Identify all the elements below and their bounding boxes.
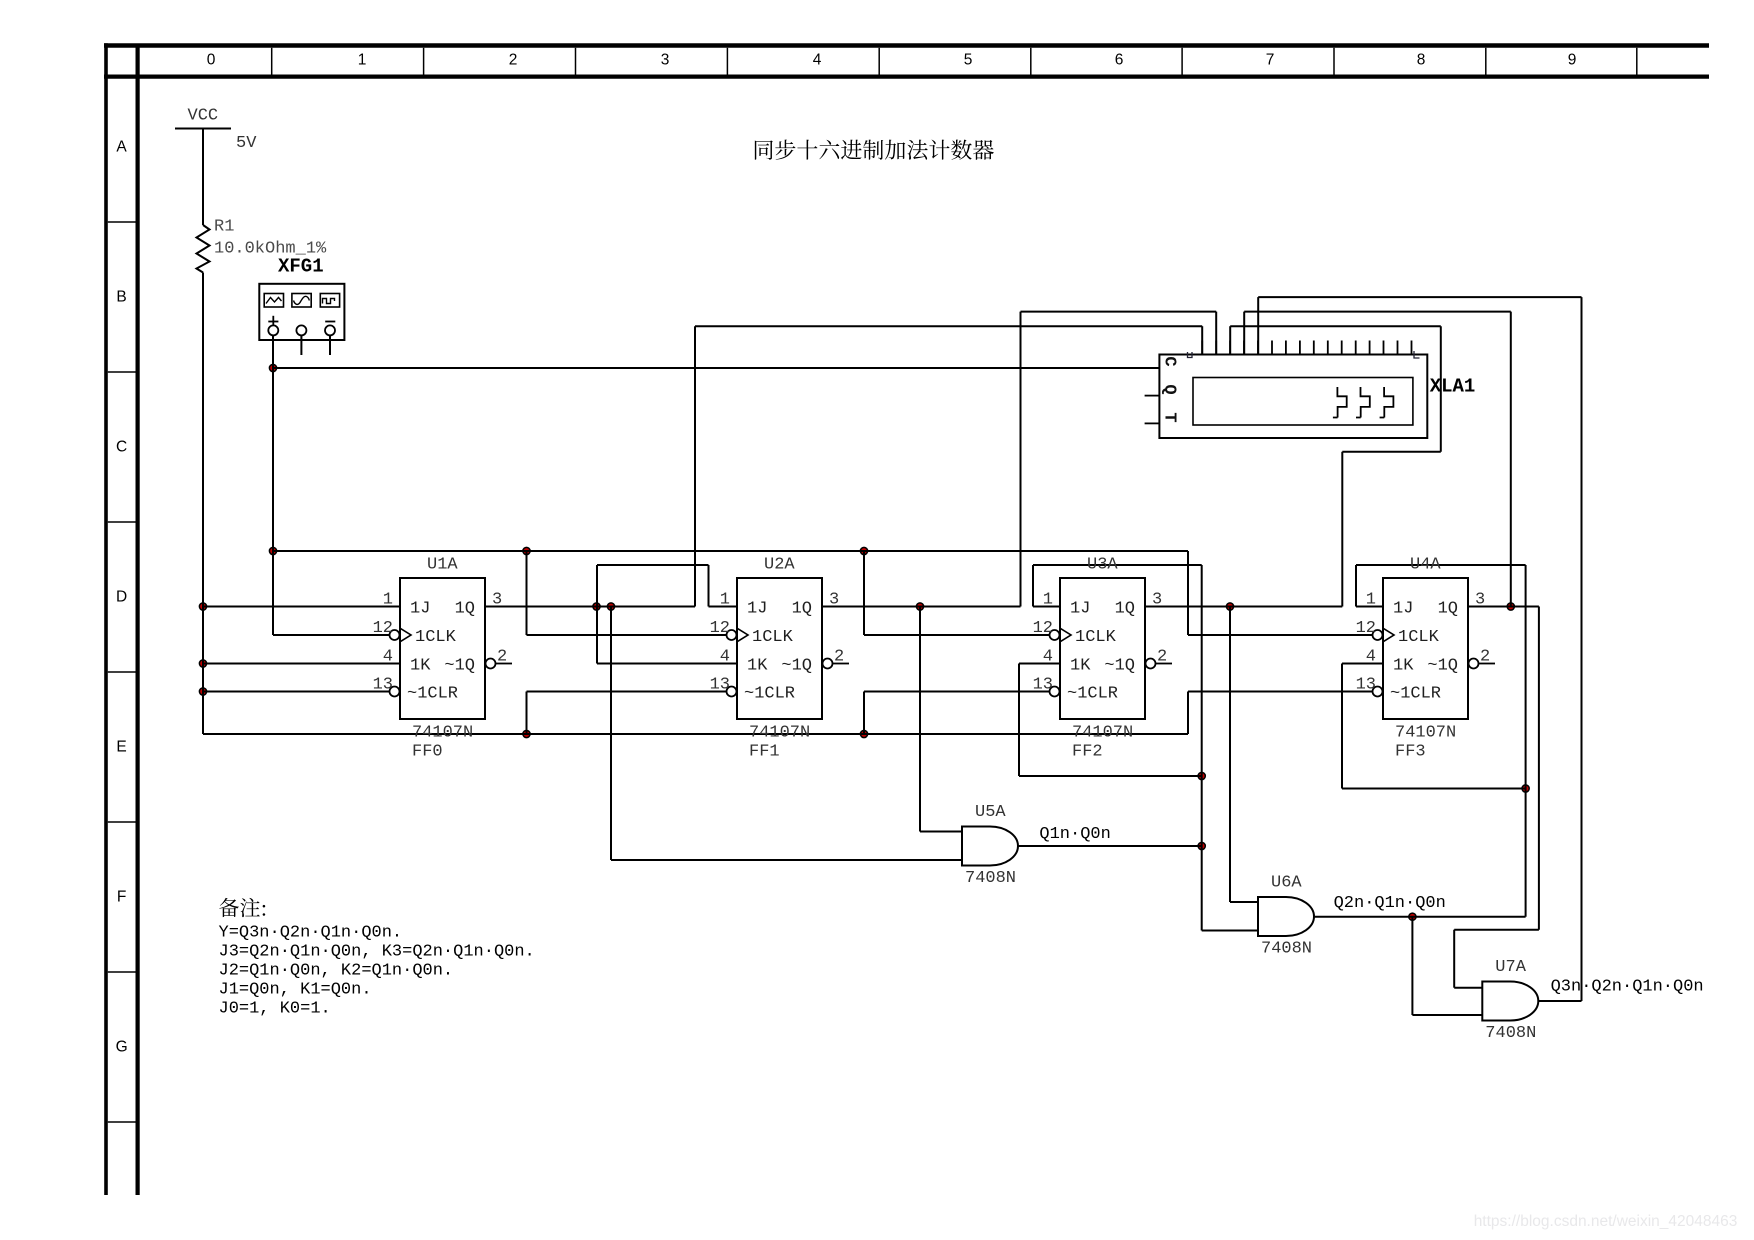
svg-text:7408N: 7408N (965, 869, 1016, 888)
svg-text:J3=Q2n·Q1n·Q0n, K3=Q2n·Q1n·Q0n: J3=Q2n·Q1n·Q0n, K3=Q2n·Q1n·Q0n. (219, 943, 535, 962)
svg-text:4: 4 (383, 648, 393, 667)
svg-text:U7A: U7A (1495, 958, 1526, 977)
svg-text:R1: R1 (214, 218, 234, 237)
svg-text:U1A: U1A (427, 556, 458, 575)
svg-text:U3A: U3A (1087, 556, 1118, 575)
svg-text:VCC: VCC (188, 107, 219, 126)
svg-text:C: C (1160, 356, 1179, 366)
svg-text:1J: 1J (747, 599, 767, 618)
svg-text:1Q: 1Q (455, 599, 475, 618)
svg-text:FF1: FF1 (749, 743, 780, 762)
svg-text:XFG1: XFG1 (278, 256, 324, 278)
svg-text:1: 1 (383, 591, 393, 610)
svg-text:FF3: FF3 (1395, 743, 1426, 762)
svg-text:1: 1 (1366, 591, 1376, 610)
svg-text:1Q: 1Q (792, 599, 812, 618)
svg-text:FF0: FF0 (412, 743, 443, 762)
svg-text:9: 9 (1568, 51, 1577, 68)
svg-text:T: T (1160, 412, 1179, 422)
svg-text:U6A: U6A (1271, 874, 1302, 893)
svg-text:Q2n·Q1n·Q0n: Q2n·Q1n·Q0n (1334, 894, 1446, 913)
svg-text:2: 2 (1157, 648, 1167, 667)
svg-text:2: 2 (497, 648, 507, 667)
svg-text:1K: 1K (747, 656, 768, 675)
svg-text:2: 2 (834, 648, 844, 667)
svg-text:U4A: U4A (1410, 556, 1441, 575)
svg-text:~1CLR: ~1CLR (1390, 684, 1441, 703)
svg-text:4: 4 (720, 648, 730, 667)
svg-text:5V: 5V (236, 134, 257, 153)
svg-text:1Q: 1Q (1115, 599, 1135, 618)
svg-text:J2=Q1n·Q0n, K2=Q1n·Q0n.: J2=Q1n·Q0n, K2=Q1n·Q0n. (219, 962, 454, 981)
svg-text:A: A (116, 139, 127, 156)
svg-text:J1=Q0n, K1=Q0n.: J1=Q0n, K1=Q0n. (219, 981, 372, 1000)
svg-text:13: 13 (1033, 676, 1053, 695)
svg-text:5: 5 (964, 51, 973, 68)
svg-text:G: G (116, 1039, 128, 1056)
svg-text:~1Q: ~1Q (1427, 656, 1458, 675)
svg-text:F: F (117, 889, 126, 906)
svg-text:2: 2 (509, 51, 518, 68)
svg-text:1Q: 1Q (1438, 599, 1458, 618)
svg-text:B: B (116, 289, 126, 306)
svg-text:1K: 1K (410, 656, 431, 675)
svg-text:4: 4 (1043, 648, 1053, 667)
svg-text:3: 3 (829, 591, 839, 610)
svg-text:C: C (116, 439, 127, 456)
svg-text:1CLK: 1CLK (1398, 628, 1440, 647)
svg-text:~1Q: ~1Q (444, 656, 475, 675)
svg-text:1CLK: 1CLK (415, 628, 457, 647)
svg-text:3: 3 (492, 591, 502, 610)
svg-text:Q: Q (1160, 384, 1179, 394)
svg-text:1K: 1K (1393, 656, 1414, 675)
svg-text:1J: 1J (1393, 599, 1413, 618)
svg-text:~1CLR: ~1CLR (744, 684, 795, 703)
svg-text:1: 1 (1043, 591, 1053, 610)
svg-text:0: 0 (207, 51, 216, 68)
svg-text:6: 6 (1115, 51, 1124, 68)
svg-text:74107N: 74107N (412, 724, 473, 743)
svg-text:Q3n·Q2n·Q1n·Q0n: Q3n·Q2n·Q1n·Q0n (1551, 978, 1704, 997)
svg-text:~1CLR: ~1CLR (407, 684, 458, 703)
svg-text:2: 2 (1480, 648, 1490, 667)
svg-text:3: 3 (661, 51, 670, 68)
svg-text:1: 1 (720, 591, 730, 610)
svg-text:3: 3 (1152, 591, 1162, 610)
svg-text:~1Q: ~1Q (1104, 656, 1135, 675)
svg-text:7: 7 (1266, 51, 1275, 68)
svg-text:Q1n·Q0n: Q1n·Q0n (1039, 825, 1110, 844)
svg-text:4: 4 (1366, 648, 1376, 667)
svg-text:XLA1: XLA1 (1430, 376, 1476, 398)
svg-text:74107N: 74107N (749, 724, 810, 743)
svg-text:U2A: U2A (764, 556, 795, 575)
svg-text:13: 13 (710, 676, 730, 695)
svg-text:74107N: 74107N (1395, 724, 1456, 743)
svg-text:~1Q: ~1Q (781, 656, 812, 675)
svg-text:1: 1 (358, 51, 367, 68)
svg-text:7408N: 7408N (1261, 940, 1312, 959)
svg-text:~1CLR: ~1CLR (1067, 684, 1118, 703)
svg-text:12: 12 (1033, 619, 1053, 638)
svg-text:3: 3 (1475, 591, 1485, 610)
svg-text:12: 12 (710, 619, 730, 638)
svg-text:74107N: 74107N (1072, 724, 1133, 743)
svg-text:FF2: FF2 (1072, 743, 1103, 762)
svg-text:https://blog.csdn.net/weixin_4: https://blog.csdn.net/weixin_42048463 (1474, 1213, 1738, 1230)
svg-text:13: 13 (1356, 676, 1376, 695)
svg-text:E: E (116, 739, 126, 756)
svg-text:1K: 1K (1070, 656, 1091, 675)
svg-text:1J: 1J (1070, 599, 1090, 618)
svg-text:1CLK: 1CLK (752, 628, 794, 647)
svg-text:8: 8 (1417, 51, 1426, 68)
svg-text:1J: 1J (410, 599, 430, 618)
svg-text:Y=Q3n·Q2n·Q1n·Q0n.: Y=Q3n·Q2n·Q1n·Q0n. (219, 924, 403, 943)
svg-text:U5A: U5A (975, 803, 1006, 822)
svg-text:12: 12 (373, 619, 393, 638)
svg-text:D: D (116, 589, 127, 606)
svg-text:J0=1, K0=1.: J0=1, K0=1. (219, 1000, 331, 1019)
svg-text:7408N: 7408N (1485, 1024, 1536, 1043)
svg-text:4: 4 (813, 51, 822, 68)
svg-text:13: 13 (373, 676, 393, 695)
svg-text:1CLK: 1CLK (1075, 628, 1117, 647)
svg-text:12: 12 (1356, 619, 1376, 638)
